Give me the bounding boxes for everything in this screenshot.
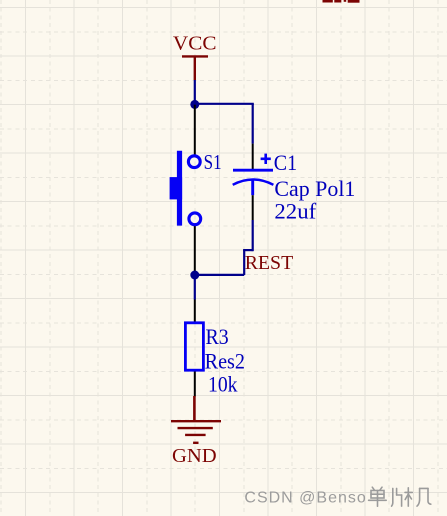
svg-text:CSDN @Benso: CSDN @Benso [244, 489, 366, 506]
switch S1 actuator bar [177, 151, 182, 226]
wire VCC stem to junction [194, 80, 196, 105]
wire capacitor branch down [252, 104, 254, 144]
pin resistor R3 bottom [194, 372, 196, 397]
pin capacitor C1 bottom [252, 195, 254, 220]
svg-text:S1: S1 [204, 150, 222, 174]
switch S1 actuator button [170, 177, 183, 199]
watermark CJK pian [392, 488, 402, 506]
pin capacitor C1 top [252, 144, 254, 169]
capacitor C1 plus sign [261, 154, 271, 164]
ground bar 2 [178, 427, 213, 429]
junction top [190, 100, 199, 109]
wire jog horizontal [243, 249, 253, 251]
pin resistor R3 top [194, 300, 196, 323]
wire bottom horizontal to junction [195, 274, 244, 276]
watermark CJK ji [405, 488, 431, 506]
svg-text:VCC: VCC [173, 32, 217, 54]
svg-text:REST: REST [245, 252, 294, 274]
watermark CJK dan [369, 487, 387, 506]
capacitor C1 top plate [233, 169, 273, 172]
svg-text:Res2: Res2 [205, 348, 245, 373]
power port VCC bar symbol [182, 56, 208, 80]
pin switch S1 top [194, 105, 196, 155]
wire capacitor to jog [252, 220, 254, 251]
net label fragment top-right (cut off) [323, 0, 360, 3]
ground stem [193, 396, 196, 421]
switch S1 top contact circle [188, 156, 200, 168]
ground bar 4 [193, 442, 198, 444]
pin switch S1 bottom [194, 226, 196, 275]
svg-text:C1: C1 [274, 150, 297, 175]
junction bottom [190, 271, 199, 280]
capacitor C1 lower stub [251, 181, 254, 196]
wire jog vertical [243, 250, 245, 275]
ground bar 1 [171, 420, 221, 422]
wire junction to resistor [194, 275, 196, 300]
svg-text:GND: GND [172, 445, 217, 467]
svg-text:10k: 10k [208, 372, 238, 397]
ground bar 3 [185, 434, 206, 436]
svg-text:R3: R3 [206, 324, 229, 349]
capacitor C1 bottom plate arc [233, 180, 274, 185]
svg-text:22uf: 22uf [274, 199, 316, 224]
resistor R3 body [185, 323, 203, 370]
switch S1 bottom contact circle [189, 213, 201, 225]
wire horizontal to capacitor branch [195, 103, 254, 105]
svg-text:Cap Pol1: Cap Pol1 [274, 176, 355, 201]
